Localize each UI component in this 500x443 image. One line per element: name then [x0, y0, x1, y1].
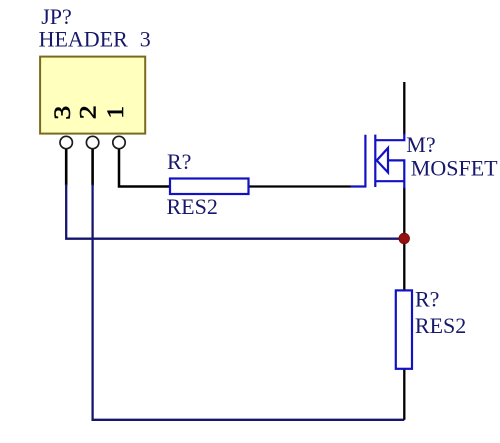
- svg-text:3: 3: [50, 106, 76, 120]
- svg-text:R?: R?: [167, 149, 191, 174]
- svg-text:1: 1: [103, 106, 129, 119]
- svg-text:MOSFET: MOSFET: [411, 155, 498, 180]
- svg-text:M?: M?: [406, 132, 435, 157]
- svg-text:HEADER: HEADER: [39, 26, 129, 51]
- svg-text:RES2: RES2: [167, 194, 218, 219]
- svg-text:RES2: RES2: [415, 313, 466, 338]
- svg-text:JP?: JP?: [41, 4, 72, 29]
- svg-text:R?: R?: [415, 287, 439, 312]
- svg-text:2: 2: [75, 105, 101, 119]
- svg-text:3: 3: [140, 26, 151, 51]
